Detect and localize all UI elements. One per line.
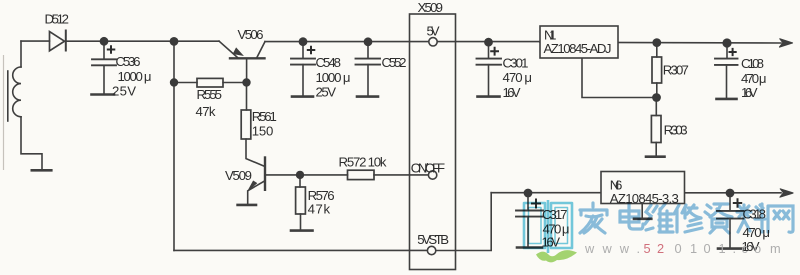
- watermark chinese characters: [580, 203, 793, 233]
- resistor R576 body: [296, 187, 306, 214]
- capacitor C108 bottom lead: [726, 65, 728, 98]
- resistor R307 body: [652, 57, 662, 83]
- resistor R555 leads: [174, 82, 247, 84]
- wire 3.3V input run: [491, 192, 601, 194]
- ground symbol under C108: [717, 98, 737, 101]
- capacitor C108 top lead: [726, 43, 728, 58]
- capacitor C317 plates: [516, 211, 543, 217]
- junction node C552/rail: [364, 37, 373, 46]
- svg-text:o: o: [754, 241, 761, 256]
- resistor R303 body: [651, 116, 661, 143]
- svg-text:.: .: [733, 241, 737, 256]
- scan artifact left edge: [3, 55, 5, 170]
- capacitor C552 plates: [356, 59, 381, 65]
- svg-text:150: 150: [252, 123, 273, 138]
- char jia: [580, 203, 607, 233]
- inductor L primary coil: [13, 67, 21, 117]
- pin X509-5V terminal circle: [429, 38, 437, 46]
- junction node C301/rail: [484, 38, 493, 47]
- svg-text:1000 μ: 1000 μ: [316, 70, 351, 85]
- transistor V506 base bar: [230, 57, 265, 59]
- svg-text:R303: R303: [664, 123, 688, 138]
- transistor V506 base lead down: [246, 58, 248, 82]
- wire bottom 5VSTB run to connector: [174, 249, 427, 251]
- junction node V509 base/R576/R572: [296, 171, 304, 179]
- svg-text:1: 1: [690, 241, 697, 256]
- transistor V509 emitter arrow (NPN): [248, 181, 256, 190]
- char liao: [737, 204, 765, 232]
- junction node R307/R303 adjust: [652, 93, 661, 102]
- junction node V506 base/R555/R561: [242, 78, 250, 86]
- wire left drop from rail to coil: [20, 41, 22, 67]
- wire 3.3V output run: [685, 192, 782, 194]
- transistor V506 collector lead: [257, 42, 266, 59]
- svg-text:16V: 16V: [741, 85, 758, 100]
- resistor R555 body: [197, 78, 223, 87]
- svg-text:C548: C548: [316, 55, 342, 70]
- svg-text:C552: C552: [382, 55, 407, 70]
- svg-text:w: w: [602, 241, 613, 256]
- transistor V506 emitter arrow (PNP): [233, 48, 242, 55]
- ground symbol under C548: [292, 95, 313, 98]
- svg-text:R555: R555: [197, 87, 223, 102]
- capacitor C548 bottom lead: [302, 65, 304, 96]
- capacitor C317 top lead: [527, 193, 529, 210]
- svg-text:C536: C536: [116, 54, 141, 69]
- capacitor C317 bottom lead: [527, 217, 529, 247]
- svg-text:AZ10845-3.3: AZ10845-3.3: [610, 191, 679, 206]
- ground symbol left (coil return): [32, 169, 52, 172]
- ground symbol under C318: [718, 247, 743, 250]
- svg-text:1000 μ: 1000 μ: [118, 69, 152, 84]
- svg-text:ON/OFF: ON/OFF: [411, 160, 445, 175]
- char xiu: [674, 205, 702, 232]
- junction node 5VSTB drop/rail: [170, 37, 179, 46]
- svg-text:2: 2: [657, 241, 664, 256]
- capacitor C536 bottom lead: [103, 65, 105, 93]
- junction node R307/rail: [652, 38, 661, 47]
- wire coil bottom to ground: [21, 117, 42, 170]
- resistor R572 leads: [300, 174, 428, 176]
- svg-text:.: .: [637, 241, 641, 256]
- char dian: [620, 204, 643, 229]
- svg-text:16V: 16V: [503, 85, 521, 100]
- transistor V509 base bar: [264, 158, 266, 190]
- svg-text:N1: N1: [544, 27, 557, 42]
- connector X509 body: [410, 14, 456, 270]
- polarity mark C318: [733, 198, 742, 207]
- svg-text:C108: C108: [741, 56, 764, 71]
- regulator N6 body: [601, 172, 685, 204]
- junction node C548/rail: [299, 37, 308, 46]
- wire 5VSTB vertical drop at x=174: [173, 41, 175, 250]
- transistor V509 base lead right: [265, 174, 300, 176]
- transistor V506 emitter lead with rail: [219, 41, 238, 58]
- capacitor C536 top lead: [103, 41, 105, 59]
- capacitor C552 bottom lead: [367, 65, 369, 96]
- svg-text:47k: 47k: [308, 202, 331, 217]
- capacitor C552 top lead: [367, 42, 369, 59]
- svg-text:m: m: [770, 241, 781, 256]
- wire N1 adjust pin: [582, 58, 653, 98]
- svg-text:0: 0: [675, 241, 682, 256]
- ground symbol under C317: [517, 246, 542, 249]
- watermark url www.520101.com: [584, 241, 781, 256]
- wire N6 ground pin: [641, 204, 643, 218]
- capacitor C548 top lead: [302, 42, 304, 59]
- capacitor C318 top lead: [729, 193, 731, 211]
- wire top rail left segment: [21, 40, 219, 42]
- pin X509-ON/OFF terminal circle: [428, 171, 436, 179]
- svg-text:w: w: [584, 241, 595, 256]
- resistor R303 bottom lead: [655, 143, 657, 156]
- ground symbol under V509 emitter: [238, 204, 256, 207]
- svg-text:R561: R561: [252, 109, 277, 124]
- svg-text:25V: 25V: [112, 84, 136, 99]
- junction node C536/rail: [100, 37, 109, 46]
- svg-text:5: 5: [644, 241, 651, 256]
- capacitor C108 plates: [715, 59, 738, 65]
- ground symbol under R576: [291, 229, 313, 232]
- junction node C108/rail: [722, 38, 731, 47]
- svg-text:1: 1: [719, 241, 726, 256]
- pin X509-5VSTB terminal circle: [427, 246, 435, 254]
- wire 5VSTB net right of connector: [436, 193, 491, 251]
- polarity mark C548: [307, 46, 316, 55]
- inductor core line: [7, 71, 9, 121]
- resistor R576 top lead: [299, 175, 301, 187]
- svg-text:5V: 5V: [427, 23, 440, 38]
- transistor V509 emitter lead: [248, 181, 265, 203]
- ground symbol under N6: [634, 218, 651, 221]
- resistor R307 bottom lead: [656, 83, 658, 98]
- svg-text:47k: 47k: [196, 104, 216, 119]
- capacitor C318 plates: [717, 211, 744, 219]
- watermark book green swoosh: [536, 250, 577, 262]
- polarity mark C317: [531, 199, 541, 209]
- junction node R555/5VSTB drop: [170, 78, 178, 86]
- diode D512: [50, 30, 66, 52]
- svg-text:c: c: [742, 241, 749, 256]
- svg-text:D512: D512: [45, 12, 70, 27]
- polarity mark C301: [490, 47, 499, 56]
- char zi: [705, 204, 732, 233]
- capacitor C536 plates: [92, 59, 116, 65]
- resistor R576 bottom lead: [300, 214, 302, 230]
- resistor R307 top lead: [656, 43, 658, 57]
- capacitor C548 plates: [291, 59, 315, 65]
- resistor R303 top lead: [655, 98, 657, 116]
- char wei: [645, 204, 673, 232]
- svg-text:25V: 25V: [316, 84, 337, 99]
- regulator N1 body: [540, 26, 618, 58]
- resistor R561 top lead: [246, 83, 248, 111]
- svg-text:R307: R307: [663, 63, 689, 78]
- capacitor C301 top lead: [488, 42, 490, 58]
- svg-text:w: w: [619, 241, 630, 256]
- wire top rail middle segment: [265, 41, 540, 43]
- wire top rail right segment: [540, 41, 781, 44]
- capacitor C301 bottom lead: [488, 65, 490, 96]
- svg-text:V509: V509: [225, 168, 252, 183]
- svg-text:X509: X509: [418, 0, 444, 15]
- capacitor C318 bottom lead: [729, 219, 731, 247]
- svg-text:0: 0: [704, 241, 711, 256]
- ground symbol under C301: [478, 95, 500, 98]
- svg-text:R572 10k: R572 10k: [339, 155, 387, 170]
- svg-text:C301: C301: [503, 56, 529, 71]
- svg-text:470 μ: 470 μ: [503, 70, 533, 85]
- resistor R561 bottom lead / V509 collector: [246, 139, 264, 166]
- ground symbol under C552: [357, 95, 378, 98]
- svg-text:470 μ: 470 μ: [741, 71, 767, 86]
- svg-text:AZ10845-ADJ: AZ10845-ADJ: [544, 41, 612, 56]
- svg-text:V506: V506: [238, 27, 264, 42]
- resistor R561 body: [241, 110, 251, 139]
- ground symbol under C536: [92, 93, 115, 96]
- junction node C318/3.3V output: [726, 189, 735, 198]
- junction node C317/3.3V input: [524, 189, 533, 198]
- capacitor C301 plates: [477, 59, 502, 65]
- polarity mark C536: [107, 45, 116, 54]
- svg-text:5VSTB: 5VSTB: [417, 232, 449, 247]
- arrow output 3.3V rail: [780, 189, 793, 197]
- char wang: [768, 206, 793, 232]
- ground symbol under R303: [646, 155, 665, 158]
- watermark book icon: [524, 200, 572, 253]
- polarity mark C108: [729, 48, 737, 56]
- arrow output 5V rail: [780, 39, 793, 47]
- resistor R572 body: [348, 170, 375, 179]
